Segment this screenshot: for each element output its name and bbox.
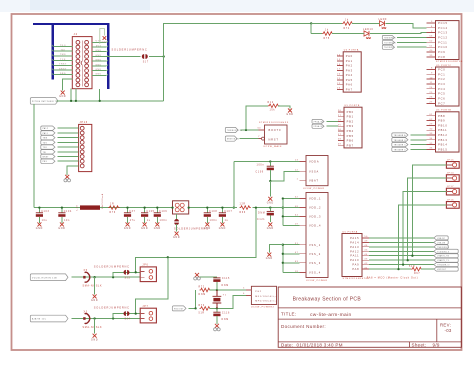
svg-text:33: 33 <box>429 133 433 135</box>
svg-text:Breakaway Section of PCB: Breakaway Section of PCB <box>293 296 362 302</box>
wire LED9 to PC14 <box>386 23 427 27</box>
svg-text:DNM: DNM <box>222 285 229 287</box>
svg-text:9: 9 <box>431 72 433 74</box>
net flag FPGA-PB2 <box>312 119 324 123</box>
svg-text:TRIGGER D: TRIGGER D <box>394 149 407 151</box>
svg-text:51R: 51R <box>409 266 415 268</box>
svg-text:24: 24 <box>429 87 433 89</box>
svg-text:53: 53 <box>429 36 433 38</box>
resistor R67 51R <box>411 267 422 271</box>
svg-text:PB13: PB13 <box>438 138 447 142</box>
svg-text:GND: GND <box>266 258 273 260</box>
ground at R12 <box>288 109 292 113</box>
svg-text:PB1: PB1 <box>347 115 354 119</box>
wire VSS bus <box>282 245 284 273</box>
svg-text:52: 52 <box>429 41 433 43</box>
svg-text:PB3: PB3 <box>347 124 354 128</box>
svg-text:GND: GND <box>124 228 131 230</box>
capacitor C106 100n <box>156 208 158 213</box>
capacitor C107 1u <box>221 208 223 213</box>
wire JP17 to PA bank <box>403 192 446 265</box>
svg-text:VDDA: VDDA <box>309 160 319 164</box>
svg-text:GND: GND <box>267 202 274 204</box>
svg-text:DBG: DBG <box>60 73 66 75</box>
svg-text:DNM: DNM <box>199 294 206 296</box>
title block <box>278 287 461 347</box>
svg-text:30: 30 <box>429 128 433 130</box>
svg-text:01/01/2018 3:40 PM: 01/01/2018 3:40 PM <box>297 343 343 348</box>
net flag FPGA-PB3 <box>312 124 324 128</box>
svg-text:C103: C103 <box>41 211 49 213</box>
svg-text:50: 50 <box>364 236 368 238</box>
svg-text:MF1/OSC&lt;=: MF1/OSC&lt;= <box>255 295 277 298</box>
IC U5 PORTC low bank PC0-PC7 <box>436 67 460 106</box>
svg-text:36: 36 <box>429 148 433 150</box>
svg-text:TITLE:: TITLE: <box>281 312 296 317</box>
wire down to R75 branch <box>310 23 312 33</box>
svg-text:PB15: PB15 <box>438 147 447 151</box>
svg-text:PB5: PB5 <box>347 134 354 138</box>
svg-text:100n: 100n <box>210 220 218 222</box>
svg-text:HS2/OUT: HS2/OUT <box>437 269 446 271</box>
svg-text:10u: 10u <box>42 220 48 222</box>
header JP14 <box>446 175 459 182</box>
capacitor C104 10n <box>61 208 63 213</box>
svg-text:VSS_3: VSS_3 <box>309 261 321 265</box>
net flag TCK/SWCLK <box>434 249 458 253</box>
svg-text:1R: 1R <box>110 203 114 205</box>
SMA connector X3 <box>85 314 90 324</box>
svg-text:R73: R73 <box>199 305 205 307</box>
svg-text:GND: GND <box>95 74 101 76</box>
net flag TMS/SWDIO <box>434 245 448 249</box>
svg-text:58: 58 <box>338 139 342 141</box>
svg-text:R76: R76 <box>110 212 116 214</box>
svg-text:10k: 10k <box>270 110 276 112</box>
wire shunt VCC drop <box>135 208 256 258</box>
net flag AIN <box>30 315 68 322</box>
svg-text:U5 PORTB: U5 PORTB <box>345 105 360 107</box>
svg-text:GND: GND <box>102 42 108 44</box>
svg-text:GND: GND <box>95 69 101 71</box>
svg-text:PB4: PB4 <box>347 129 354 133</box>
wire NRST <box>240 138 259 140</box>
svg-text:8: 8 <box>431 68 433 70</box>
svg-text:VSS_4: VSS_4 <box>309 271 321 275</box>
svg-text:X5: X5 <box>84 270 88 272</box>
wire from bus bottom <box>99 89 101 101</box>
ground under C116 <box>215 324 219 328</box>
svg-text:25: 25 <box>429 92 433 94</box>
svg-text:49: 49 <box>364 241 368 243</box>
svg-text:2: 2 <box>431 31 433 33</box>
svg-text:Sheet:: Sheet: <box>412 343 427 348</box>
wire to R74 <box>311 22 342 24</box>
net flag TCK/SWCLK <box>382 40 394 44</box>
svg-text:46: 46 <box>364 245 368 247</box>
svg-text:UCXW_POWER: UCXW_POWER <box>306 280 328 282</box>
bus B1 around J2 <box>33 23 108 25</box>
svg-text:PC12: PC12 <box>438 35 448 39</box>
SMA connector X5 <box>85 272 90 282</box>
svg-text:3V3: 3V3 <box>96 45 102 47</box>
LED10 <box>364 31 369 36</box>
net flag TCK to JP13 <box>41 145 55 149</box>
svg-text:GND: GND <box>154 228 161 230</box>
resistor R12 10k <box>246 106 268 130</box>
svg-text:21: 21 <box>337 78 341 80</box>
svg-text:27: 27 <box>429 102 433 104</box>
svg-text:GND: GND <box>59 96 66 98</box>
svg-text:USB-DM: USB-DM <box>437 242 445 244</box>
svg-text:TCK: TCK <box>43 147 48 149</box>
svg-text:PA7: PA7 <box>346 87 353 91</box>
IC U5 PORTB low bank PB0-PB7 <box>344 107 362 148</box>
net flag TDO to JP13 <box>41 140 55 144</box>
ground left of C115 <box>200 276 217 278</box>
svg-text:cw-lite-arm-main: cw-lite-arm-main <box>310 312 352 318</box>
svg-text:PC3: PC3 <box>438 82 445 86</box>
net flag USART1_TX <box>434 258 458 262</box>
wire VCCGLITCH net <box>72 276 141 278</box>
svg-text:15: 15 <box>337 59 341 61</box>
svg-text:PC10: PC10 <box>438 45 448 49</box>
wire J2 to SJ7 <box>92 56 141 58</box>
svg-text:PB6: PB6 <box>347 139 354 143</box>
svg-text:SOLDERJUMPERNC: SOLDERJUMPERNC <box>94 264 130 268</box>
svg-text:C115: C115 <box>222 278 230 280</box>
svg-text:PB10: PB10 <box>438 123 447 127</box>
net flag BOOT0 <box>225 127 238 132</box>
svg-text:TMS/BOOT0 9B: TMS/BOOT0 9B <box>227 130 242 132</box>
svg-text:TRIGGER-IO: TRIGGER-IO <box>437 265 450 267</box>
svg-text:-03: -03 <box>445 328 452 333</box>
wire to JP6 top pin <box>135 257 137 272</box>
svg-text:U5 PORTB: U5 PORTB <box>436 110 451 112</box>
svg-text:PC15: PC15 <box>438 21 448 25</box>
IC U5 PORTB high bank PB8-PB15 <box>436 112 460 152</box>
svg-text:1k: 1k <box>325 30 329 32</box>
svg-text:TCK: TCK <box>60 59 66 61</box>
wire SJ7 net up and right to LEDs <box>164 23 312 56</box>
wire JP13 pin9 to ground <box>67 166 78 175</box>
wire VSSA to ground node <box>270 171 299 181</box>
svg-text:23: 23 <box>337 88 341 90</box>
svg-text:45: 45 <box>364 249 368 251</box>
net flag TMS/SWDIO <box>382 35 394 39</box>
net flag HS1/OUT <box>172 306 186 311</box>
svg-text:1k: 1k <box>345 19 349 21</box>
capacitor C116 DNM <box>216 308 218 312</box>
header JP17 <box>446 188 459 195</box>
svg-text:PA3: PA3 <box>346 68 353 72</box>
resistor R75 1k <box>322 32 333 36</box>
svg-text:C107: C107 <box>224 211 232 213</box>
wire R74 to LED9 <box>352 22 380 24</box>
ground GND below J2 <box>61 91 65 95</box>
net flag TDO/SWO <box>382 45 394 49</box>
svg-text:GND: GND <box>91 339 98 341</box>
svg-text:SMA-NOSLK: SMA-NOSLK <box>83 326 103 329</box>
svg-text:U5 PORTC: U5 PORTC <box>436 65 452 67</box>
svg-text:GND: GND <box>267 228 274 230</box>
svg-text:PB3: PB3 <box>43 161 47 163</box>
wire SJ7 to junction <box>149 56 164 58</box>
svg-text:C108: C108 <box>209 211 217 213</box>
svg-text:28: 28 <box>338 120 342 122</box>
svg-text:STM32F10XXXGHXX: STM32F10XXXGHXX <box>259 122 289 124</box>
svg-text:34: 34 <box>429 138 433 140</box>
svg-text:Y1: Y1 <box>223 294 227 296</box>
wire LED10 to PC13 <box>370 32 426 35</box>
svg-text:PC13: PC13 <box>438 31 448 35</box>
svg-text:JP13: JP13 <box>80 121 88 124</box>
ground under X3 <box>93 334 97 338</box>
svg-text:PB0: PB0 <box>347 110 354 114</box>
svg-text:SJ7: SJ7 <box>143 62 149 64</box>
svg-text:PC9: PC9 <box>438 50 445 54</box>
wire VDDA net <box>234 161 300 163</box>
svg-text:TDO: TDO <box>60 45 66 47</box>
svg-text:U5 PORTA: U5 PORTA <box>344 49 359 52</box>
capacitor C37 47u <box>127 208 129 213</box>
wire AIN net <box>72 318 141 320</box>
LED9 <box>380 21 385 26</box>
wire OSC_OUT node <box>210 296 246 309</box>
wire OSC_IN node <box>210 289 246 291</box>
svg-text:26: 26 <box>338 110 342 112</box>
svg-text:BOOT0: BOOT0 <box>269 128 282 132</box>
svg-text:20: 20 <box>337 73 341 75</box>
wire VSS to ground <box>269 245 283 253</box>
svg-text:14: 14 <box>337 54 341 56</box>
svg-text:PC8: PC8 <box>438 55 445 59</box>
wire BOOT0 <box>241 129 259 131</box>
svg-text:PC7: PC7 <box>438 101 445 105</box>
capacitor C115 DNM <box>213 277 220 279</box>
svg-text:X3: X3 <box>84 312 88 314</box>
net flag PB3 to JP13 <box>41 159 55 163</box>
net flag USB-DM <box>434 240 448 244</box>
svg-text:J2: J2 <box>74 32 78 36</box>
svg-text:GND: GND <box>95 50 101 52</box>
svg-text:PC11: PC11 <box>438 40 447 44</box>
svg-text:VSS_1: VSS_1 <box>309 243 321 247</box>
svg-text:6: 6 <box>243 293 245 295</box>
net flag USB-DP <box>434 236 448 240</box>
svg-text:PC1: PC1 <box>438 72 445 76</box>
net flag NRST <box>225 136 237 141</box>
svg-text:40: 40 <box>429 50 433 52</box>
svg-text:GND: GND <box>36 228 43 230</box>
wire SJ5 branch <box>113 272 140 277</box>
ground below SJ6 <box>175 232 179 236</box>
ground below JP13 <box>65 175 69 179</box>
svg-text:C116: C116 <box>222 313 230 315</box>
svg-text:PB8: PB8 <box>438 114 445 118</box>
wire SJ7 junction down to PCTRIG <box>163 57 165 101</box>
svg-text:LED10: LED10 <box>363 29 374 31</box>
svg-text:NRST/IN 9B: NRST/IN 9B <box>227 139 239 141</box>
svg-text:PA0: PA0 <box>346 54 353 58</box>
svg-text:GND: GND <box>95 60 101 62</box>
svg-text:61: 61 <box>429 114 433 116</box>
svg-text:NRST: NRST <box>43 157 49 159</box>
svg-text:51: 51 <box>429 45 433 47</box>
svg-text:PA5: PA5 <box>346 78 353 82</box>
svg-text:4: 4 <box>431 26 433 28</box>
svg-text:NRST: NRST <box>269 138 279 142</box>
svg-text:100n: 100n <box>160 220 168 222</box>
svg-text:GND: GND <box>95 64 101 66</box>
svg-text:PA10: PA10 <box>350 258 359 262</box>
svg-text:TMS/SWDIO: TMS/SWDIO <box>437 247 449 249</box>
svg-text:TRIGGER B: TRIGGER B <box>394 140 406 142</box>
svg-text:R66: R66 <box>240 212 246 214</box>
svg-text:UCXW_POWER: UCXW_POWER <box>303 188 325 190</box>
svg-text:SRST: SRST <box>59 68 67 70</box>
svg-text:7: 7 <box>258 136 260 138</box>
svg-text:11: 11 <box>430 82 434 84</box>
svg-text:LED9: LED9 <box>379 19 388 21</box>
svg-text:R72: R72 <box>199 286 205 288</box>
svg-text:GND: GND <box>91 300 98 302</box>
wire R12 to ground <box>278 106 290 109</box>
svg-text:PA14: PA14 <box>350 240 359 244</box>
ground GND under C109 <box>268 197 272 201</box>
svg-text:GND: GND <box>141 228 148 230</box>
svg-text:1u: 1u <box>147 220 151 222</box>
svg-text:TRIGGER C: TRIGGER C <box>394 145 407 147</box>
svg-text:PA12: PA12 <box>350 249 359 253</box>
capacitor C108 100n <box>206 208 208 213</box>
svg-text:TCK/SWCLK: TCK/SWCLK <box>384 42 396 44</box>
header JP15 <box>446 162 459 169</box>
svg-text:PC4: PC4 <box>438 87 445 91</box>
net flag VCCGLITCH <box>30 274 68 281</box>
svg-text:16: 16 <box>337 64 341 66</box>
svg-text:PA9: PA9 <box>352 263 359 267</box>
svg-text:PA4: PA4 <box>346 73 353 77</box>
svg-text:DNM: DNM <box>222 319 229 321</box>
svg-text:PB2: PB2 <box>347 119 354 123</box>
svg-text:C121: C121 <box>257 219 265 221</box>
svg-text:17: 17 <box>337 69 341 71</box>
svg-text:1: 1 <box>297 178 299 180</box>
wire X5 shield to ground <box>93 276 95 278</box>
solder jumper SJ6 below FB2 <box>176 214 178 220</box>
svg-text:PCTRIG SWITCHDIR TO: PCTRIG SWITCHDIR TO <box>32 101 58 103</box>
svg-text:TMS: TMS <box>60 54 66 56</box>
header JP7 <box>140 308 156 323</box>
wire SJ4 branch <box>112 317 114 319</box>
svg-text:L10: L10 <box>77 205 79 211</box>
svg-text:PB12: PB12 <box>438 133 447 137</box>
J2 left wires from bus <box>54 45 73 47</box>
svg-text:UCXW_MAIN: UCXW_MAIN <box>264 145 282 148</box>
wire VCC left drop <box>33 104 35 207</box>
svg-text:22: 22 <box>337 83 341 85</box>
svg-text:GND: GND <box>219 228 226 230</box>
svg-text:PB11: PB11 <box>438 128 447 132</box>
svg-text:VSS_2: VSS_2 <box>309 252 321 256</box>
svg-text:C37: C37 <box>129 211 135 213</box>
resistor R72 DNM <box>200 288 211 292</box>
svg-text:27: 27 <box>338 115 342 117</box>
wire VDDA tap from rail <box>233 162 235 208</box>
svg-text:PG2: PG2 <box>255 291 261 293</box>
svg-text:PA15: PA15 <box>350 236 359 240</box>
net flag TMS to JP13 <box>41 135 55 139</box>
connector JP13 <box>79 124 92 171</box>
svg-text:VSSA: VSSA <box>309 169 319 173</box>
resistor R66 12R <box>240 206 251 210</box>
svg-text:GND: GND <box>286 114 293 116</box>
net flag NRST to JP13 <box>41 154 55 158</box>
resistor R73 51R <box>200 307 211 311</box>
svg-text:SOLDERJUMPERNC: SOLDERJUMPERNC <box>94 306 130 310</box>
svg-text:TMS/SWDIO: TMS/SWDIO <box>384 38 396 40</box>
wire JP16 to PA bank <box>399 205 447 269</box>
svg-text:5: 5 <box>243 288 245 290</box>
wire to JP7 top pin <box>136 257 168 313</box>
IC U5 VDD/VSS gate <box>306 193 328 278</box>
svg-text:10: 10 <box>429 77 433 79</box>
ferrite bead FB2 <box>173 201 189 214</box>
svg-text:3: 3 <box>431 21 433 23</box>
svg-text:STM32F100RBT6B: STM32F100RBT6B <box>436 61 463 63</box>
wire PA11 net <box>369 255 434 257</box>
svg-text:VDD_4: VDD_4 <box>309 223 321 227</box>
svg-text:PA11: PA11 <box>350 254 359 258</box>
svg-text:JP6: JP6 <box>142 265 148 267</box>
net flag TDI to JP13 <box>41 150 55 154</box>
svg-text:VDD_3: VDD_3 <box>309 215 321 219</box>
svg-text:GND: GND <box>204 228 211 230</box>
capacitor C121 DNM <box>269 206 271 208</box>
net flag TRIGGER D <box>392 147 408 151</box>
svg-text:PA2: PA2 <box>346 64 353 68</box>
svg-text:PC5: PC5 <box>438 92 445 96</box>
svg-text:UCXW_POWER2: UCXW_POWER2 <box>251 307 275 309</box>
svg-text:PA8 = MCO (Master Clock Out): PA8 = MCO (Master Clock Out) <box>367 276 418 279</box>
svg-text:PB7: PB7 <box>347 143 354 147</box>
svg-text:26: 26 <box>429 97 433 99</box>
svg-text:JP16: JP16 <box>447 200 454 202</box>
wire JP14 to PA bank <box>408 178 447 260</box>
svg-text:TDI: TDI <box>60 50 65 52</box>
svg-text:HS1/OUT: HS1/OUT <box>174 308 184 310</box>
net flag HS2/OUT <box>434 267 458 271</box>
svg-text:TDO: TDO <box>43 142 48 144</box>
IC U5 PORTC high bank PC15-PC8 <box>436 21 460 60</box>
svg-text:C106: C106 <box>159 211 167 213</box>
svg-text:Date:: Date: <box>281 343 293 348</box>
svg-text:PC2: PC2 <box>438 77 445 81</box>
svg-text:JP14: JP14 <box>447 173 454 175</box>
svg-text:R74: R74 <box>344 28 350 30</box>
svg-text:29: 29 <box>429 124 433 126</box>
net flag PCTRIG <box>30 98 58 105</box>
svg-text:SJ4: SJ4 <box>125 319 131 321</box>
svg-text:39: 39 <box>429 55 433 57</box>
svg-text:PC0: PC0 <box>438 67 445 71</box>
svg-text:REV:: REV: <box>440 323 451 328</box>
wire JP15 to PA bank <box>412 165 446 256</box>
ground under X5 <box>93 294 97 298</box>
svg-text:42: 42 <box>364 263 368 265</box>
svg-text:GND: GND <box>58 228 65 230</box>
